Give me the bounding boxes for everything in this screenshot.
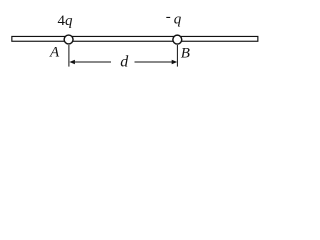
svg-text:B: B	[181, 45, 190, 61]
extension line below charge A	[68, 45, 70, 67]
rod (horizontal bar)	[12, 36, 258, 41]
svg-text:-: -	[166, 9, 171, 25]
charge B circle	[173, 35, 182, 44]
dimension line left segment	[71, 61, 111, 63]
svg-text:A: A	[49, 45, 60, 61]
charge A circle	[64, 35, 73, 44]
svg-text:q: q	[174, 12, 182, 28]
right arrowhead	[172, 60, 178, 65]
dimension line right segment	[135, 61, 176, 63]
svg-text:4q: 4q	[58, 13, 74, 29]
extension line below charge B	[176, 45, 178, 67]
left arrowhead	[69, 60, 75, 65]
svg-text:d: d	[120, 54, 129, 71]
